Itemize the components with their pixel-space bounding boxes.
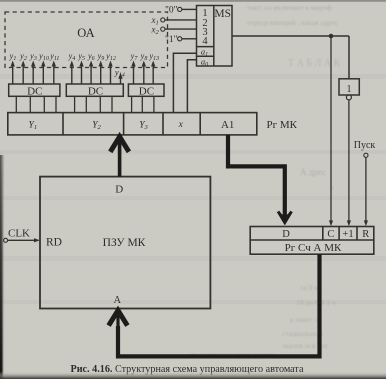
svg-text:x: x	[178, 120, 184, 130]
wire "1" to MS pin4	[182, 38, 197, 40]
wire junction to C input	[330, 36, 332, 223]
svg-text:+1: +1	[342, 229, 353, 240]
register-counter Рг Сч А МК box	[250, 227, 374, 255]
decoder DC1	[9, 84, 60, 96]
wires register Y2 to DC2	[75, 96, 112, 112]
DC2 output arrows y4 y5 y6 y9 y12	[72, 64, 111, 85]
svg-text:А дрес: А дрес	[300, 167, 326, 177]
svg-text:MS: MS	[214, 8, 231, 20]
svg-text:такт; со включает в мироф: такт; со включает в мироф	[247, 3, 332, 12]
svg-text:А: А	[114, 295, 122, 306]
wire inverter to +1 input	[348, 100, 350, 223]
wire CLK to RD	[8, 239, 37, 241]
labels y7 y8 y13	[130, 52, 159, 62]
wire MS output to inverter	[348, 36, 350, 79]
wires register Y3 to DC3	[132, 96, 154, 112]
svg-text:Рг МК: Рг МК	[267, 119, 298, 131]
register Рг МК box	[8, 113, 257, 135]
svg-text:RD: RD	[46, 236, 62, 248]
svg-text:"0": "0"	[165, 6, 178, 16]
wire Пуск to R input	[365, 157, 367, 222]
wires register Y1 to DC1	[16, 96, 56, 112]
svg-text:Т А Б Л А К: Т А Б Л А К	[288, 58, 341, 69]
svg-text:ПЗУ МК: ПЗУ МК	[103, 237, 146, 249]
decoder DC2	[66, 84, 123, 96]
svg-text:1: 1	[347, 84, 352, 95]
DC1 output arrows y1 y2 y3 y10 y11	[13, 64, 54, 85]
ROM ПЗУ МК box	[40, 177, 210, 309]
svg-text:ОА: ОА	[77, 26, 94, 40]
svg-text:DC: DC	[88, 86, 103, 98]
svg-text:D: D	[115, 183, 123, 195]
decoder DC3	[128, 84, 164, 96]
wire "0" to MS pin1	[182, 8, 197, 10]
multiplexer MS box	[197, 6, 233, 67]
wire MS output	[232, 35, 349, 37]
svg-text:"1": "1"	[165, 35, 178, 45]
svg-text:DC: DC	[139, 86, 154, 98]
wire x2 to MS pin3	[165, 28, 197, 30]
svg-text:А1: А1	[221, 119, 234, 131]
svg-text:Рг Сч А МК: Рг Сч А МК	[285, 242, 342, 254]
wire x field to MS select a1	[173, 53, 196, 112]
svg-text:CLK: CLK	[8, 227, 30, 239]
DC3 output arrows y7 y8 y13	[134, 64, 154, 85]
svg-text:4: 4	[202, 36, 208, 47]
wire x field to MS select a0	[187, 60, 196, 113]
svg-text:стадиальных: стадиальных	[282, 329, 323, 338]
bus counter output to A of ROM (thick feedback)	[118, 254, 320, 356]
inverter output bubble	[346, 95, 351, 100]
svg-text:определяющий ; какая адрес: определяющий ; какая адрес	[247, 18, 339, 27]
page edge shading (decorative)	[0, 0, 386, 2]
inverter U1	[339, 79, 359, 95]
svg-text:в пакет за: в пакет за	[290, 315, 322, 324]
wire x1 to MS pin2	[165, 19, 197, 21]
decorative ghost show-through text	[190, 3, 341, 359]
svg-text:C: C	[327, 229, 334, 240]
labels y4 y5 y6 y9 y12	[68, 52, 116, 62]
DC2 short output arrow y14	[120, 76, 122, 84]
svg-text:Пуск: Пуск	[354, 140, 376, 151]
svg-text:R: R	[362, 229, 369, 240]
bus D output to Рг МК (thick arrow up)	[118, 141, 122, 177]
operational automaton OA dashed box	[5, 12, 168, 68]
labels y1 y2 y3 y10 y11	[9, 52, 60, 62]
bus A1 to D of counter (thick bent arrow)	[228, 135, 285, 216]
svg-text:D: D	[282, 229, 290, 240]
svg-text:DC: DC	[27, 86, 42, 98]
junction dot	[329, 34, 334, 39]
svg-text:оказов осв нес: оказов осв нес	[282, 341, 329, 350]
